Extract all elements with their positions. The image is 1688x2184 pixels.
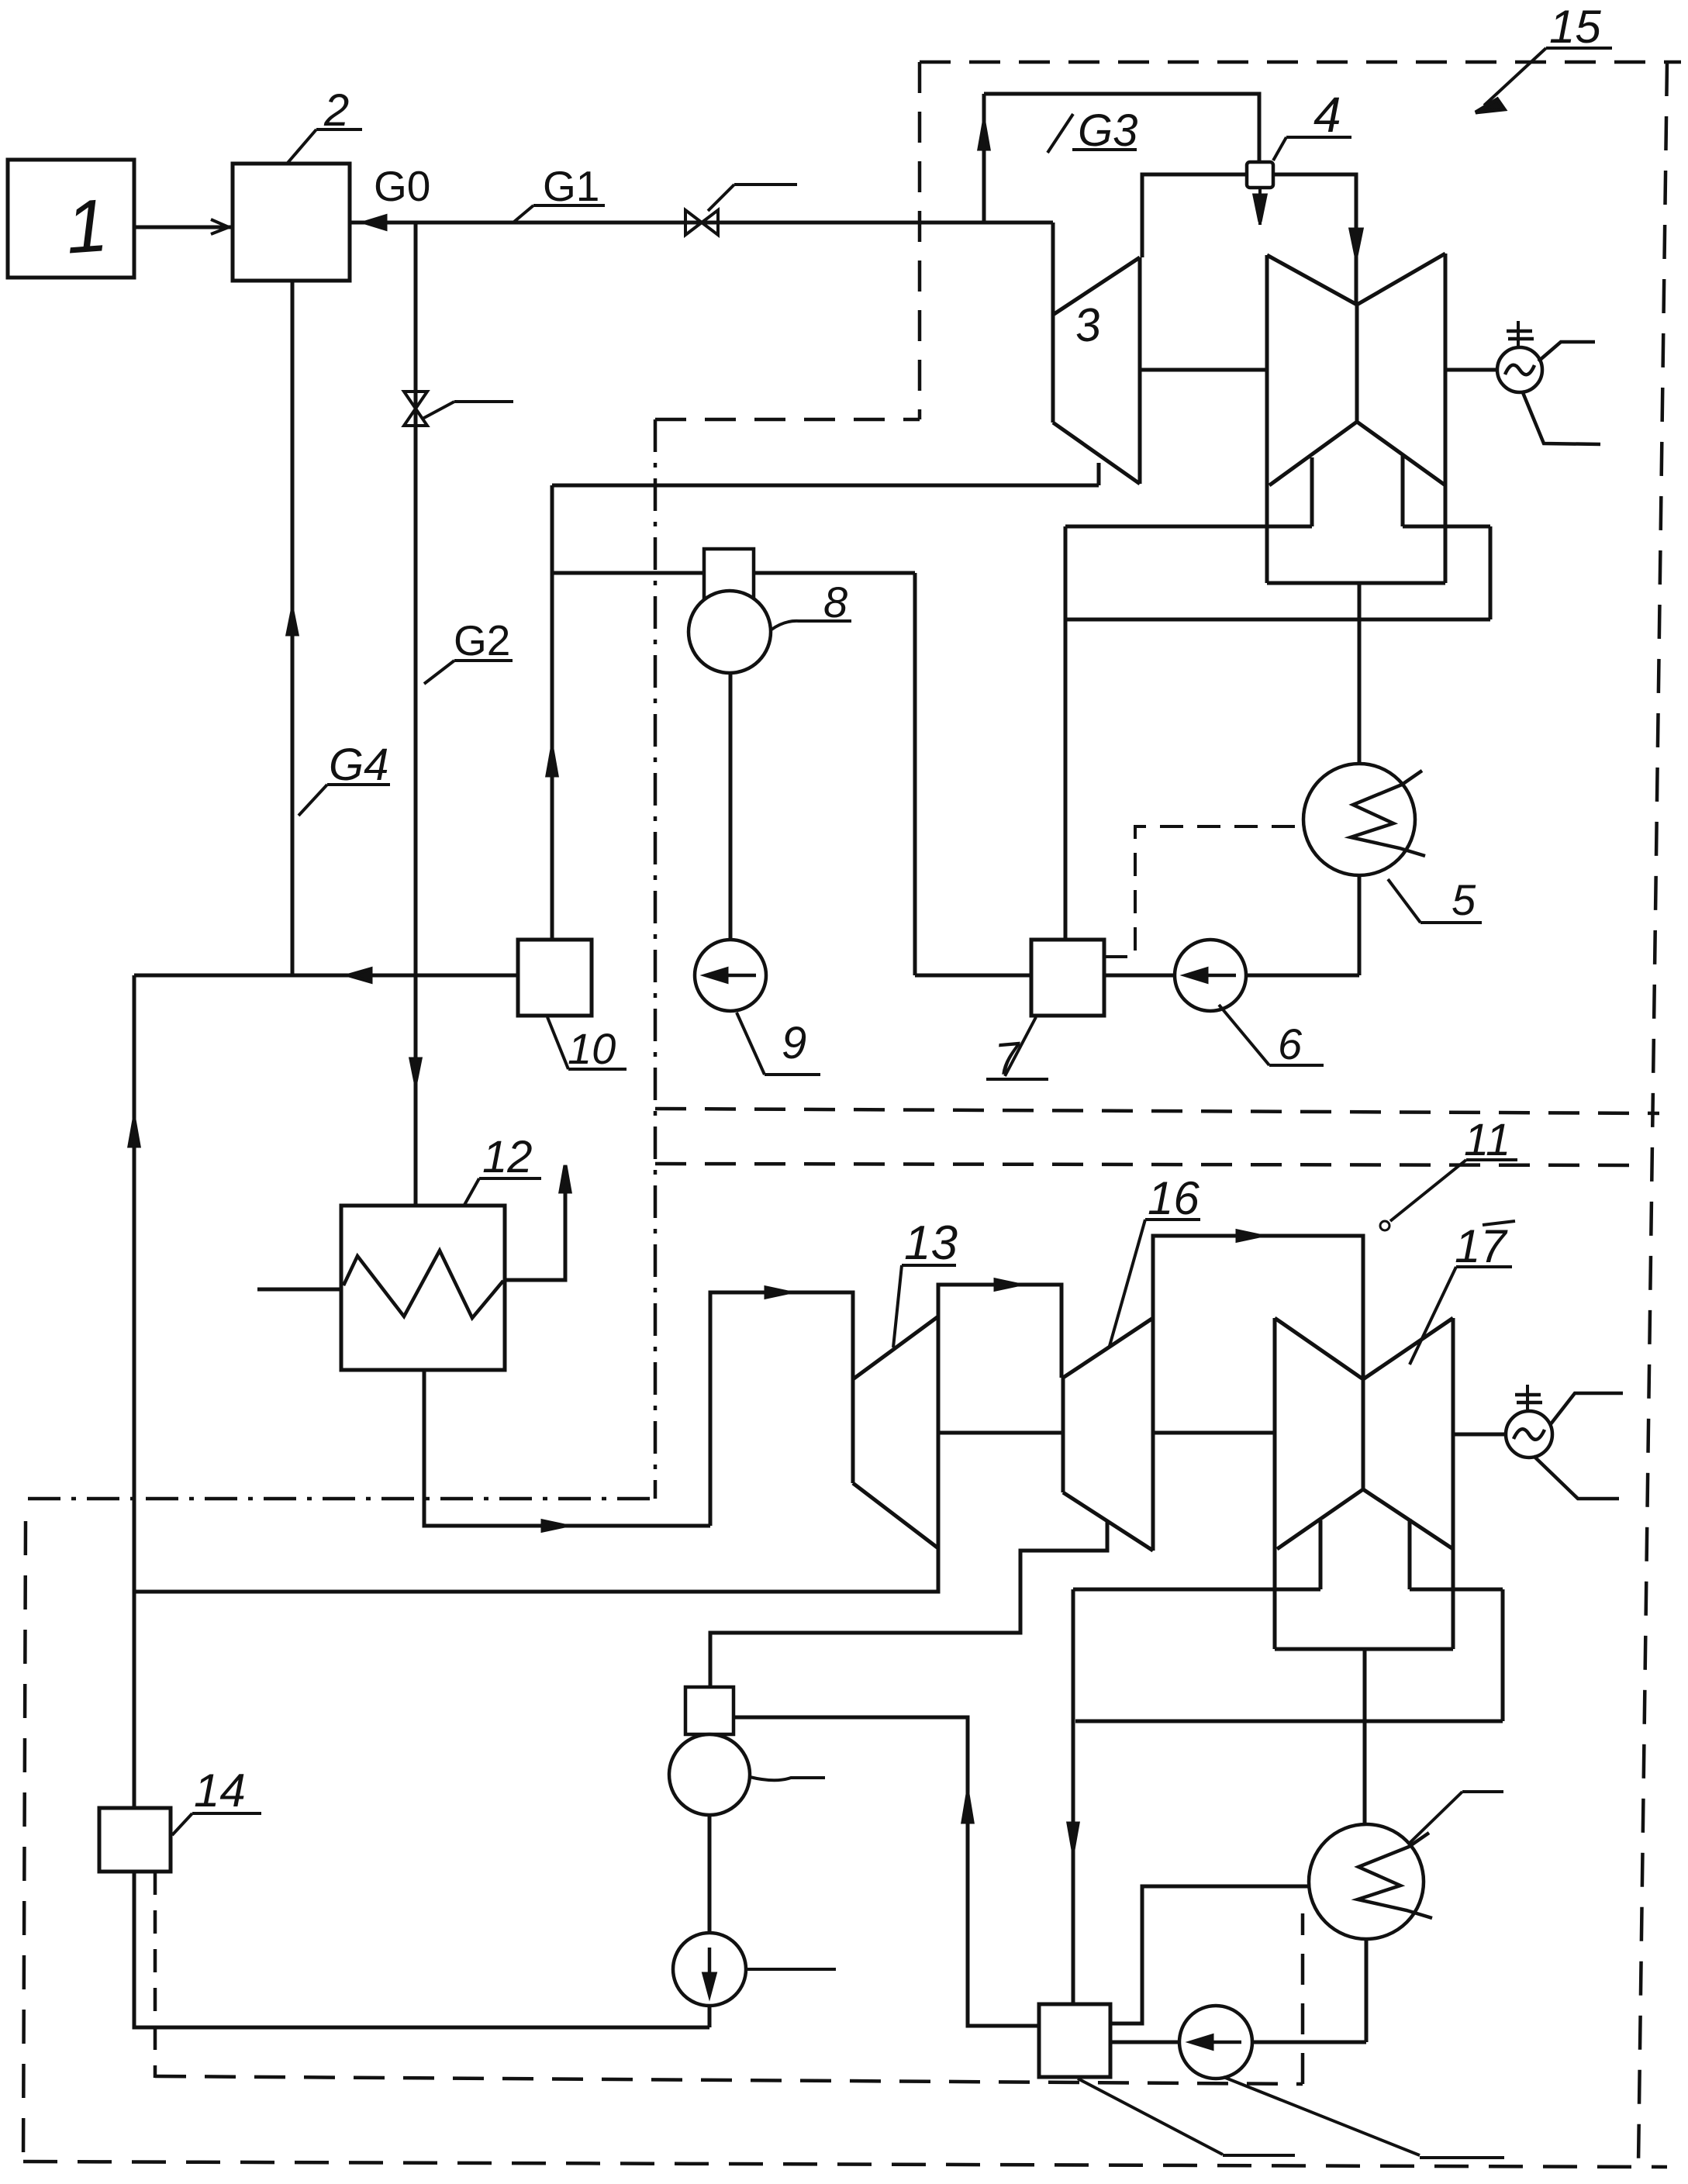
wire right downcomer (913, 573, 917, 975)
condenser 5 (1303, 764, 1415, 875)
svg-text:14: 14 (194, 1765, 246, 1817)
wire exhaust downcomer to condenser 5 (1358, 583, 1362, 764)
wire 13 to 16 crossover (938, 1285, 1061, 1378)
block 2 (regenerator) (233, 164, 350, 281)
frame 11 cooling riser (1301, 1913, 1305, 2084)
svg-text:11: 11 (1464, 1115, 1510, 1165)
frame 15 left lower (dash-dot) (654, 419, 658, 1499)
svg-text:6: 6 (1278, 1020, 1303, 1068)
svg-text:12: 12 (482, 1132, 533, 1182)
deaerator of lower cycle (box + drum) (685, 1687, 734, 1734)
wire G3 riser (982, 94, 986, 223)
svg-text:G1: G1 (543, 162, 599, 210)
turbine exhaust hood (1065, 525, 1312, 529)
arrow up on G4 (288, 611, 297, 634)
leader of feed pump (745, 1968, 836, 1971)
compressor discharge tap (1097, 463, 1101, 485)
turbine 13 (851, 1379, 855, 1483)
wire 13 exhaust to left (134, 1548, 938, 1592)
wire condensate return riser to deaerator (734, 1717, 1039, 2026)
compressor 3 (1051, 223, 1055, 423)
wire G2 branch vertical (414, 223, 418, 1206)
svg-text:8: 8 (823, 578, 847, 626)
separator dash-dot line (28, 1497, 655, 1501)
leader of condensate tank (1078, 2079, 1223, 2155)
wire exhaust left leg to box 7 (1064, 526, 1068, 940)
generator of gas turbine (1445, 368, 1497, 372)
turbine 16 (1061, 1378, 1065, 1492)
leader of deaerator (750, 1777, 825, 1780)
frame 15 step (655, 418, 920, 422)
wire G3 top line (984, 94, 1259, 162)
box 10 (518, 940, 592, 1016)
turbine 17 (double-flow) (1273, 1318, 1277, 1649)
feed pump of lower cycle (673, 1933, 746, 2006)
wire deaerator to feed pump (708, 1815, 712, 1933)
svg-text:1: 1 (64, 184, 111, 269)
valve on G2 line (404, 392, 427, 426)
wire G4 vertical from block 2 (291, 281, 295, 975)
heat exchanger 12 (341, 1206, 505, 1370)
box 7 (upper condensate tank) (1031, 940, 1104, 1016)
generator of steam turbine (1506, 1411, 1552, 1458)
wire hot-gas line to heater 8 (552, 571, 915, 575)
wire 4 right to turbine inlet (1273, 174, 1356, 305)
wire tank to condenser (upper link) (1110, 1886, 1309, 2024)
frame 11 top (655, 1164, 1642, 1165)
turbine 17 exhaust hood (1073, 1588, 1320, 1592)
wire tank to pump (1110, 2041, 1179, 2044)
pump of lower condenser (1179, 2006, 1252, 2079)
frame 15 left upper (918, 62, 922, 419)
wire 1 to 2 (134, 226, 231, 229)
stub inlet left of 12 (257, 1288, 341, 1292)
pump 9 (695, 940, 766, 1011)
vent stub below 4 (1258, 188, 1262, 225)
valve on G1 line (685, 210, 718, 235)
frame 15 top (920, 60, 1681, 64)
svg-text:G4: G4 (329, 740, 388, 790)
arrow down on G2 (411, 1059, 420, 1082)
wire compressed gas line (552, 484, 1099, 488)
svg-text:5: 5 (1452, 875, 1476, 924)
svg-text:3: 3 (1072, 298, 1103, 352)
svg-text:15: 15 (1549, 1, 1601, 53)
svg-text:4: 4 (1313, 87, 1341, 143)
leader of lower pump (1224, 2077, 1420, 2155)
ground symbol of upper generator (1517, 321, 1520, 348)
wire box7 to pump 6 (1104, 974, 1175, 978)
wire feed pump bottom stub (708, 2006, 712, 2027)
heater 8 (with top box) (704, 549, 754, 601)
component 4 (injector box) (1247, 162, 1273, 188)
condenser of lower cycle (1309, 1824, 1424, 1939)
frame 15 bottom (655, 1109, 1659, 1113)
svg-text:13: 13 (904, 1216, 958, 1270)
svg-text:G0: G0 (374, 162, 430, 210)
frame right edge (15 and 11) (1638, 62, 1667, 2163)
wire condenser drain down (1365, 1939, 1369, 2042)
wire 16 to 17 crossover (1153, 1236, 1363, 1379)
wire G0/G1 main line (350, 221, 1053, 225)
outer frame left (23, 1521, 26, 2162)
wires right of lower generator (1550, 1393, 1623, 1425)
junction arrow G0 (365, 216, 385, 229)
wires right of upper generator (1538, 342, 1595, 361)
svg-text:16: 16 (1148, 1172, 1200, 1224)
block 1 (gas source) (8, 160, 134, 278)
svg-text:G2: G2 (454, 616, 510, 664)
leader of lower condenser (1408, 1792, 1462, 1844)
wire outlet right of 12 with vent arrow (505, 1172, 565, 1280)
dashed cooling water line 7 to 5 (1104, 826, 1303, 957)
pump 6 (1175, 940, 1246, 1011)
frame 11 left (154, 1872, 157, 2078)
wire return line to G4 (134, 974, 518, 978)
frame 11 bottom (155, 2076, 1303, 2084)
gas turbine (double-flow) (1265, 255, 1269, 583)
wire pump to condenser drain (1252, 2041, 1366, 2044)
wire 17 downcomer to condenser (1363, 1649, 1367, 1824)
shaft compressor to turbine (1140, 368, 1267, 372)
svg-text:9: 9 (782, 1018, 806, 1068)
ground symbol of lower generator (1526, 1385, 1529, 1412)
wire condenser 5 drain (1358, 875, 1362, 975)
wire left downcomer (133, 975, 136, 1808)
svg-text:10: 10 (568, 1024, 616, 1073)
condensate tank of lower cycle (1039, 2004, 1110, 2077)
wire bottom return to box 14 (134, 1872, 709, 2027)
svg-text:17: 17 (1455, 1220, 1508, 1272)
wire 17 exhaust left leg to tank (1072, 1589, 1075, 2004)
shaft 13-16-17-generator (938, 1431, 1063, 1435)
wire 16 exhaust to deaerator (710, 1522, 1107, 1687)
box 14 (99, 1808, 171, 1872)
wire riser to turbine 13 inlet (710, 1292, 853, 1526)
wire 4 left to compressor outlet (1142, 174, 1247, 257)
wire pump 6 to condenser drain (1246, 974, 1359, 978)
wire 12 bottom to steam line (424, 1370, 710, 1526)
wire riser to box 10 (551, 485, 554, 940)
wire 8 to pump 9 (729, 673, 733, 940)
outer frame bottom (23, 2162, 1667, 2167)
